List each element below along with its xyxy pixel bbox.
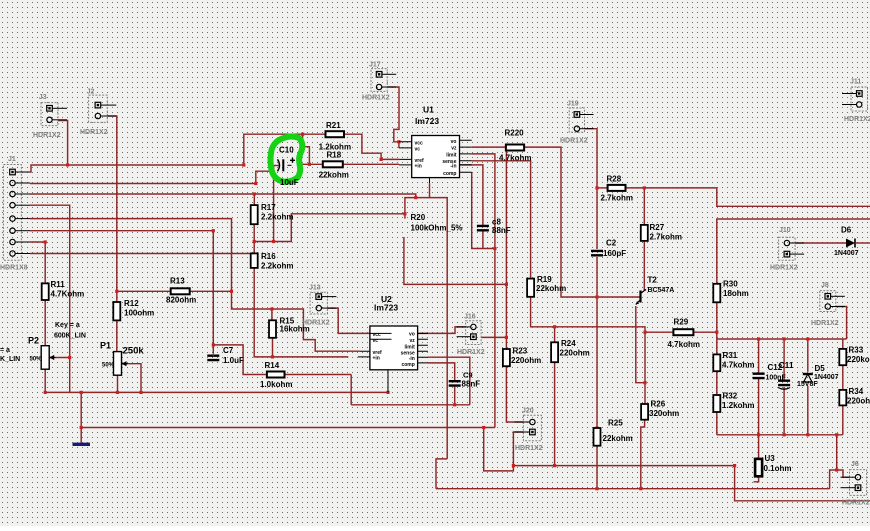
svg-text:88nF: 88nF (462, 380, 481, 389)
svg-text:comp: comp (443, 171, 456, 177)
svg-text:-in: -in (450, 164, 456, 170)
svg-text:4.7kohm: 4.7kohm (499, 154, 531, 163)
svg-text:R16: R16 (261, 252, 276, 261)
svg-text:J1: J1 (8, 156, 16, 163)
svg-text:HDR1X2: HDR1X2 (842, 500, 870, 507)
svg-text:250k: 250k (123, 346, 145, 357)
svg-text:C11: C11 (779, 360, 794, 370)
svg-text:R27: R27 (650, 223, 665, 232)
svg-text:2.2kohm: 2.2kohm (261, 213, 293, 222)
svg-text:R30: R30 (723, 280, 738, 289)
svg-text:18ohm: 18ohm (723, 289, 749, 298)
svg-text:50%: 50% (102, 363, 115, 369)
svg-text:4.7Kohm: 4.7Kohm (51, 290, 85, 299)
svg-text:100nF: 100nF (766, 375, 787, 382)
svg-text:1.0uF: 1.0uF (223, 356, 244, 365)
svg-text:HDR1X2: HDR1X2 (80, 129, 108, 136)
svg-text:lm723: lm723 (415, 116, 439, 126)
svg-text:= a: = a (0, 347, 10, 354)
svg-text:R21: R21 (326, 121, 341, 130)
svg-text:22kohm: 22kohm (536, 284, 566, 293)
svg-text:22kohm: 22kohm (319, 171, 349, 180)
svg-text:limit: limit (405, 344, 416, 350)
svg-text:+in: +in (373, 355, 380, 361)
svg-text:2.7kohm: 2.7kohm (650, 233, 682, 242)
svg-text:R23: R23 (513, 347, 528, 356)
svg-text:T2: T2 (648, 276, 658, 285)
svg-text:J19: J19 (567, 101, 579, 108)
svg-text:vz: vz (410, 338, 416, 344)
svg-text:C7: C7 (223, 346, 234, 355)
svg-text:220oh: 220oh (847, 397, 870, 406)
svg-text:R17: R17 (261, 203, 276, 212)
svg-text:R13: R13 (170, 277, 185, 286)
svg-text:D6: D6 (841, 226, 852, 235)
svg-text:J17: J17 (369, 62, 381, 69)
svg-text:R11: R11 (51, 280, 66, 289)
svg-text:vo: vo (409, 332, 415, 338)
svg-text:vcc: vcc (415, 140, 424, 146)
svg-text:R18: R18 (327, 151, 342, 160)
svg-text:BC547A: BC547A (648, 287, 675, 294)
svg-text:320ohm: 320ohm (649, 409, 679, 418)
svg-text:100ohm: 100ohm (124, 309, 154, 318)
svg-text:U3: U3 (765, 454, 776, 463)
svg-text:R14: R14 (265, 361, 280, 370)
svg-text:HDR1X8: HDR1X8 (0, 265, 28, 272)
svg-text:J11: J11 (850, 79, 861, 86)
svg-text:vo: vo (451, 139, 457, 145)
svg-text:J6: J6 (851, 461, 859, 468)
svg-text:P1: P1 (100, 341, 111, 351)
svg-text:600K_LIN: 600K_LIN (54, 333, 86, 340)
svg-text:1N4007: 1N4007 (814, 374, 839, 381)
svg-text:HDR1X2: HDR1X2 (560, 138, 588, 145)
svg-text:J13: J13 (309, 284, 321, 291)
svg-text:vz: vz (451, 146, 457, 152)
svg-text:R32: R32 (723, 392, 738, 401)
svg-text:1N4007: 1N4007 (834, 250, 859, 257)
svg-text:HDR1X2: HDR1X2 (457, 349, 485, 356)
svg-text:K_LIN: K_LIN (0, 356, 20, 363)
svg-text:J2: J2 (87, 89, 95, 96)
svg-text:HDR1X2: HDR1X2 (844, 116, 870, 123)
svg-text:R220: R220 (505, 129, 525, 138)
svg-text:limit: limit (446, 152, 457, 158)
svg-text:HDR1X2: HDR1X2 (362, 95, 390, 102)
svg-text:0.1ohm: 0.1ohm (764, 464, 792, 473)
svg-text:Key = a: Key = a (55, 322, 80, 329)
svg-text:88nF: 88nF (492, 226, 511, 235)
svg-text:4.7kohm: 4.7kohm (722, 361, 754, 370)
svg-text:2.2kohm: 2.2kohm (261, 262, 293, 271)
svg-text:R20: R20 (411, 213, 426, 222)
svg-text:220koh: 220koh (847, 355, 870, 364)
svg-text:C2: C2 (606, 239, 617, 248)
svg-text:220ohm: 220ohm (511, 356, 541, 365)
svg-text:J10: J10 (779, 227, 791, 234)
svg-text:HDR1X2: HDR1X2 (515, 445, 543, 452)
svg-text:J20: J20 (522, 408, 534, 415)
svg-text:16kohm: 16kohm (280, 325, 310, 334)
svg-text:R25: R25 (608, 419, 623, 428)
svg-text:R19: R19 (537, 275, 552, 284)
svg-text:4.7kohm: 4.7kohm (668, 340, 700, 349)
svg-text:D5: D5 (815, 364, 826, 373)
svg-text:15V8F: 15V8F (797, 381, 818, 388)
svg-text:R31: R31 (723, 351, 738, 360)
svg-text:R12: R12 (124, 299, 139, 308)
svg-text:220ohm: 220ohm (560, 349, 590, 358)
svg-text:comp: comp (401, 362, 414, 368)
svg-text:820ohm: 820ohm (166, 296, 196, 305)
svg-text:HDR1X2: HDR1X2 (811, 320, 839, 327)
svg-text:HDR1X2: HDR1X2 (33, 132, 61, 139)
svg-text:R28: R28 (607, 175, 622, 184)
svg-text:J3: J3 (39, 94, 47, 101)
svg-text:J16: J16 (464, 314, 476, 321)
svg-text:vc: vc (415, 146, 421, 152)
svg-text:HDR1X2: HDR1X2 (770, 265, 798, 272)
svg-text:1.0kohm: 1.0kohm (260, 380, 292, 389)
svg-text:R29: R29 (674, 318, 689, 327)
svg-text:P2: P2 (28, 336, 39, 346)
svg-text:lm723: lm723 (374, 303, 398, 313)
svg-text:2.7kohm: 2.7kohm (601, 194, 633, 203)
svg-text:vc: vc (373, 338, 379, 344)
svg-text:100kOhm_5%: 100kOhm_5% (411, 224, 463, 233)
svg-text:160pF: 160pF (603, 249, 626, 258)
svg-text:+in: +in (415, 164, 422, 170)
svg-text:R24: R24 (561, 339, 576, 348)
svg-text:R34: R34 (849, 387, 864, 396)
svg-text:C10: C10 (279, 146, 294, 155)
svg-text:50%: 50% (30, 357, 43, 363)
svg-text:C9: C9 (463, 371, 473, 380)
svg-text:J8: J8 (821, 282, 829, 289)
svg-text:22kohm: 22kohm (603, 434, 633, 443)
svg-text:1.2kohm: 1.2kohm (722, 401, 754, 410)
svg-text:R33: R33 (849, 346, 864, 355)
svg-text:U1: U1 (423, 105, 434, 115)
svg-text:10uF: 10uF (280, 178, 299, 187)
svg-text:R26: R26 (651, 400, 666, 409)
